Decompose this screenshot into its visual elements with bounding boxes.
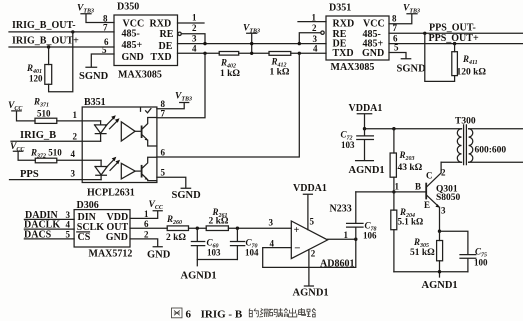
capacitor C78 106: [347, 192, 363, 239]
svg-text:4: 4: [192, 44, 197, 54]
svg-text:5: 5: [66, 229, 71, 239]
svg-text:3: 3: [313, 34, 318, 44]
svg-text:51 kΩ: 51 kΩ: [410, 248, 435, 258]
svg-text:103: 103: [207, 248, 221, 258]
svg-text:6: 6: [186, 309, 192, 321]
ground AGND1 (C72): [356, 160, 374, 162]
svg-text:N233: N233: [330, 204, 352, 215]
svg-text:485-: 485-: [122, 28, 140, 39]
svg-text:2: 2: [311, 249, 316, 259]
svg-text:DE: DE: [159, 41, 173, 52]
svg-text:100: 100: [474, 257, 488, 267]
opto channel 1 light arrows: [106, 117, 118, 129]
pin 1 stub RXD D351: [298, 21, 326, 23]
svg-text:43 kΩ: 43 kΩ: [398, 163, 423, 173]
svg-text:PPS_OUT-: PPS_OUT-: [429, 23, 476, 34]
svg-text:HCPL2631: HCPL2631: [87, 188, 135, 199]
svg-text:7: 7: [161, 108, 166, 118]
pin 2 RE bubble D351: [299, 33, 321, 44]
caption hanzi BIAN: [259, 309, 268, 318]
svg-text:VCC: VCC: [363, 18, 385, 29]
svg-text:3: 3: [441, 206, 446, 216]
svg-text:SGND: SGND: [397, 64, 427, 75]
wire PPS: [10, 179, 102, 181]
svg-text:1: 1: [312, 13, 317, 23]
node 1 (base node): [392, 190, 395, 193]
svg-text:C: C: [426, 171, 433, 181]
svg-text:GND: GND: [106, 232, 128, 243]
node junction on IRIG_B_OUT-: [71, 30, 74, 33]
wire DE net (D350 pin3 to D351 pin3, with V_TB3): [178, 43, 327, 45]
opto channel 1 amplifier: [121, 122, 135, 141]
svg-text:2 kΩ: 2 kΩ: [209, 216, 229, 226]
wire base line: [356, 191, 426, 193]
svg-text:3: 3: [66, 210, 71, 220]
svg-text:R411: R411: [462, 54, 478, 66]
opto channel 2 light arrows: [106, 159, 118, 171]
svg-text:MAX5712: MAX5712: [89, 248, 133, 259]
svg-text:TXD: TXD: [333, 48, 354, 59]
svg-text:D351: D351: [329, 3, 351, 14]
svg-text:6: 6: [161, 147, 166, 157]
svg-text:CS: CS: [78, 232, 91, 243]
ground AGND1 (filter caps): [197, 260, 237, 266]
svg-text:R402: R402: [220, 58, 236, 70]
svg-text:R203: R203: [399, 150, 415, 162]
svg-text:5: 5: [161, 168, 166, 178]
pin 2 RE bubble and wire D350: [178, 32, 181, 35]
svg-text:5: 5: [394, 43, 399, 53]
svg-text:AGND1: AGND1: [349, 165, 385, 176]
svg-text:S8050: S8050: [436, 193, 461, 203]
svg-text:1: 1: [192, 13, 197, 23]
ground AGND1 (op-amp pin2): [304, 250, 313, 286]
svg-text:IRIG_B: IRIG_B: [20, 130, 56, 141]
resistor R401 120: [48, 47, 50, 65]
wire op-amp output: [328, 238, 356, 240]
svg-text:R371: R371: [33, 97, 49, 109]
caption hanzi MA: [269, 309, 277, 317]
caption hanzi CHU: [288, 308, 296, 317]
svg-text:2: 2: [144, 229, 149, 239]
svg-text:103: 103: [341, 140, 355, 150]
pin 6 OUT wire D306: [130, 227, 167, 229]
svg-text:+: +: [294, 225, 300, 236]
svg-text:AGND1: AGND1: [293, 288, 329, 299]
caption hanzi SHU: [278, 308, 287, 317]
pin 5 wire and ground SGND (D351): [389, 53, 411, 59]
svg-text:2 kΩ: 2 kΩ: [166, 233, 186, 243]
svg-text:VCC: VCC: [149, 200, 164, 211]
svg-text:2: 2: [441, 168, 446, 178]
svg-text:AGND1: AGND1: [181, 271, 217, 282]
svg-text:3: 3: [71, 169, 76, 179]
node junction on IRIG_B_OUT+: [47, 45, 50, 48]
svg-text:D350: D350: [117, 2, 139, 13]
svg-text:SGND: SGND: [172, 190, 202, 201]
svg-text:PPS: PPS: [20, 169, 39, 180]
svg-text:120 kΩ: 120 kΩ: [457, 68, 487, 78]
wire VDDA1 rail: [365, 128, 462, 130]
svg-text:MAX3085: MAX3085: [331, 62, 375, 73]
resistor R305 51k: [439, 231, 441, 240]
svg-text:E: E: [424, 200, 430, 210]
caption hanzi LU: [307, 309, 316, 317]
opto channel 2 LED: [95, 160, 107, 179]
capacitor C72 103: [357, 129, 374, 161]
svg-text:VTB3: VTB3: [403, 4, 420, 15]
op-amp U AD8601: [291, 221, 327, 259]
svg-text:5.1 kΩ: 5.1 kΩ: [398, 216, 424, 226]
node emitter junction: [438, 230, 441, 233]
svg-text:AGND1: AGND1: [422, 280, 458, 291]
wire IRIG_B: [11, 140, 101, 142]
svg-text:120: 120: [29, 74, 43, 84]
svg-text:TXD: TXD: [151, 52, 172, 63]
svg-text:IRIG_B_OUT-: IRIG_B_OUT-: [12, 20, 76, 31]
svg-text:RXD: RXD: [150, 18, 172, 29]
svg-text:RE: RE: [160, 29, 174, 40]
capacitor C75 100: [440, 231, 476, 272]
svg-text:8: 8: [392, 14, 397, 24]
svg-text:7: 7: [393, 23, 398, 33]
svg-text:IRIG_B_OUT+: IRIG_B_OUT+: [12, 36, 79, 47]
svg-text:GND: GND: [122, 52, 144, 63]
svg-text:3: 3: [269, 218, 274, 228]
svg-text:104: 104: [245, 248, 259, 258]
opto channel 1 transistor: [135, 130, 142, 132]
svg-text:3: 3: [192, 34, 197, 44]
IC D306 MAX5712 box: [74, 210, 130, 247]
wire IRIG_B_OUT+: [9, 46, 114, 48]
svg-text:VDDA1: VDDA1: [349, 103, 383, 114]
svg-text:1: 1: [144, 209, 149, 219]
svg-text:−: −: [294, 243, 300, 255]
resistor R412 1k: [269, 52, 291, 56]
resistor R204 5.1k: [393, 192, 395, 210]
caption hanzi DIAN: [299, 308, 306, 315]
IC D350 MAX3085 box: [114, 15, 178, 66]
svg-text:1 kΩ: 1 kΩ: [220, 69, 240, 79]
pin 2 wire and ground GND (D306): [130, 239, 162, 247]
svg-text:1: 1: [395, 181, 400, 191]
svg-text:D306: D306: [77, 200, 99, 211]
svg-text:T300: T300: [455, 117, 476, 127]
opto channel 2 amplifier: [121, 163, 135, 179]
svg-text:4: 4: [313, 44, 318, 54]
pin 1 stub RXD D350: [178, 22, 205, 24]
caption hanzi TU (figure): [172, 308, 183, 318]
svg-text:510: 510: [37, 109, 51, 119]
svg-text:IRIG - B: IRIG - B: [201, 309, 243, 321]
svg-text:2: 2: [73, 132, 78, 142]
svg-text:VTB3: VTB3: [175, 92, 192, 103]
svg-text:5: 5: [310, 217, 315, 227]
svg-text:106: 106: [363, 230, 377, 240]
resistor R203 43k: [393, 129, 395, 153]
transistor Q301 S8050: [425, 184, 427, 199]
resistor R402 1k: [219, 52, 239, 56]
opto channel 2 transistor: [135, 170, 141, 172]
svg-text:GND: GND: [362, 48, 384, 59]
wire feedback loop op-amp: [263, 239, 356, 267]
svg-text:B351: B351: [84, 97, 106, 108]
svg-text:1: 1: [73, 110, 78, 120]
wire GND pin5 D350 to SGND: [86, 54, 114, 67]
resistor R411 120k: [454, 44, 456, 52]
svg-text:4: 4: [71, 149, 76, 159]
IC D351 MAX3085 box: [326, 16, 389, 60]
svg-text:2: 2: [192, 23, 197, 33]
pin 4 TXD D350 wire: [178, 52, 220, 54]
wire TXD D351 down to optocoupler pin6: [157, 53, 299, 157]
svg-text:MAX3085: MAX3085: [118, 70, 162, 81]
svg-text:B: B: [415, 181, 421, 191]
opto channel 1 LED: [95, 121, 107, 141]
svg-text:4: 4: [66, 220, 71, 230]
svg-text:GND: GND: [147, 250, 171, 261]
svg-text:VDDA1: VDDA1: [293, 183, 327, 194]
capacitor C60 103: [191, 228, 204, 259]
svg-text:2: 2: [312, 23, 317, 33]
IC B351 HCPL2631 box: [82, 107, 157, 183]
wire PPS_OUT-: [389, 32, 523, 34]
svg-text:SGND: SGND: [79, 71, 109, 82]
wire PPS_OUT+: [389, 43, 523, 45]
svg-text:1: 1: [344, 230, 349, 240]
svg-text:VTB3: VTB3: [77, 4, 94, 15]
svg-text:RXD: RXD: [333, 18, 355, 29]
svg-text:7: 7: [103, 23, 108, 33]
capacitor C70 104: [231, 228, 245, 259]
ground AGND1 (emitter network): [394, 272, 468, 277]
svg-text:6: 6: [144, 219, 149, 229]
opto vcc tick top right: [141, 107, 151, 113]
wire IRIG_B_OUT-: [9, 31, 114, 33]
svg-text:485+: 485+: [122, 40, 143, 51]
pin 5 wire and ground SGND (B351): [157, 177, 191, 188]
svg-text:1 kΩ: 1 kΩ: [270, 68, 290, 78]
svg-text:600:600: 600:600: [475, 146, 507, 156]
svg-text:R260: R260: [166, 214, 182, 226]
wire TXD D350 down to optocoupler pin7: [157, 53, 205, 117]
caption figure 6: [172, 308, 316, 321]
caption hanzi DE: [249, 309, 258, 317]
